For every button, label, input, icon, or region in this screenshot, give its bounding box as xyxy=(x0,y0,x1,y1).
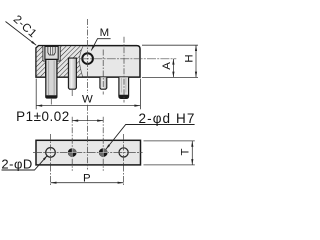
svg-text:W: W xyxy=(82,93,93,105)
svg-text:P1±0.02: P1±0.02 xyxy=(16,109,70,124)
svg-text:H: H xyxy=(183,54,195,62)
svg-text:2-φD: 2-φD xyxy=(1,156,32,171)
svg-text:A: A xyxy=(161,62,173,70)
svg-text:T: T xyxy=(180,148,192,155)
svg-text:2-φd H7: 2-φd H7 xyxy=(139,111,196,126)
svg-text:P: P xyxy=(83,173,91,185)
svg-text:M: M xyxy=(100,27,110,39)
